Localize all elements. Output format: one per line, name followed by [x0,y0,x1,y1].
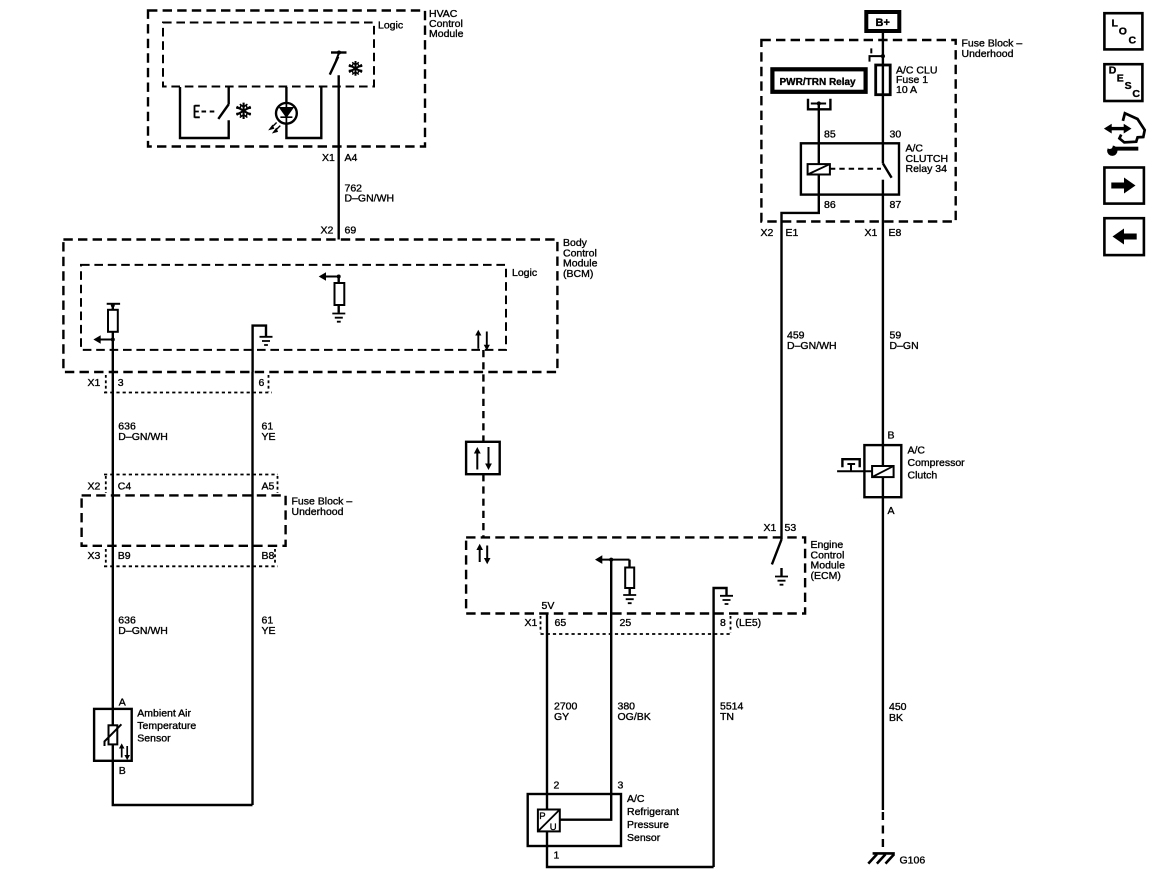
fuse block X2 row ticks [106,476,278,493]
wire 459 D-GN/WH [780,227,782,522]
wire: sensor pin1 return to 5514 TN [547,831,714,867]
svg-text:Logic: Logic [378,20,403,32]
snowflake icon 1 [236,103,251,119]
wire 380 OG/BK [560,614,611,820]
svg-text:5V: 5V [542,600,555,612]
wire: HVAC X1-A4 output down to BCM X2-69 [338,75,340,239]
fuse block X3 row ticks [106,549,275,565]
HVAC Control Module label [429,8,464,40]
svg-text:PWR/TRN Relay: PWR/TRN Relay [780,77,857,88]
sensor serial arrows [122,746,128,758]
svg-text:Clutch: Clutch [908,470,938,482]
LED diode symbol [280,103,292,124]
wire label 61 YE (lower) [262,615,276,638]
Fuse Block Underhood (left) label [292,496,353,519]
connector label X1 A4 [322,152,358,164]
fuse block X3 row bottom dotted edge [104,565,278,567]
LED indicator bracket wire [286,87,321,138]
serial data arrows (link box) [477,447,488,470]
Body Control Module label [563,237,598,280]
fuse label [896,65,937,96]
switch S2 contact dot [337,51,341,55]
svg-text:B+: B+ [876,17,890,29]
svg-text:X3: X3 [88,550,101,562]
thermistor body [109,725,118,744]
svg-text:A4: A4 [345,152,358,164]
svg-text:(LE5): (LE5) [736,617,762,629]
svg-text:2: 2 [554,780,560,792]
thermistor diagonal [105,724,122,746]
resistor R-5V pullup [628,560,630,568]
svg-text:A: A [888,505,895,517]
svg-text:E: E [1117,72,1124,84]
svg-text:GY: GY [554,711,569,723]
B+ battery feed box [866,12,899,31]
connector X1 row labels (ECM) [525,617,762,629]
connector X1 row bottom dotted edge [104,392,272,394]
svg-text:BK: BK [889,712,903,724]
resistor R-in69 junction arrow [325,276,339,278]
arrow out pin3 [100,339,113,341]
resistor R-in69 [338,277,340,284]
A/C Refrigerant Pressure Sensor box [528,794,621,846]
svg-text:3: 3 [118,377,124,389]
svg-text:Module: Module [429,28,464,40]
svg-text:10 A: 10 A [896,84,917,96]
wire label 59 D-GN [890,330,919,353]
svg-text:85: 85 [824,129,836,141]
current tap symbol at fuse feed [870,48,885,61]
HVAC Control Module outer box [148,11,425,147]
wire label 2700 GY [554,701,578,724]
svg-text:B: B [119,765,126,777]
connector X1 row bottom dotted edge (ECM) [541,633,733,635]
A/C Compressor Clutch label [908,445,966,482]
ground (internal, 69 pull) [332,314,345,322]
thermistor wire inside sensor [112,709,114,761]
svg-text:3: 3 [618,780,624,792]
wire: ECM pin8 ground leg [714,588,727,614]
wire: ECM pin25 signal [610,560,612,614]
connector label X2 69 [321,225,357,237]
svg-text:B9: B9 [118,550,131,562]
PWR/TRN Relay box [772,69,865,92]
svg-text:X1: X1 [764,522,777,534]
A/C CLUTCH Relay 34 label [906,143,949,176]
svg-text:Underhood: Underhood [962,48,1014,60]
connector X1 row ticks (ECM) [541,616,731,633]
switch S2 stub [336,53,339,61]
wire: relay pin86 to X2-E1 [782,175,819,228]
svg-text:1: 1 [554,850,560,862]
wire: BCM pin6 ground leg [253,326,266,372]
A/C Refrigerant Pressure Sensor label [627,793,679,844]
Engine Control Module box [466,537,805,613]
wire label 636 D-GN/WH (lower) [118,615,168,638]
svg-text:A/C: A/C [908,445,926,457]
clutch coil [882,445,884,497]
svg-text:30: 30 [890,129,902,141]
svg-text:YE: YE [262,625,276,637]
svg-text:X2: X2 [321,225,334,237]
snowflake icon 2 [349,61,363,76]
wire: PWR/TRN output to relay coil pin85 [818,104,820,165]
svg-text:YE: YE [262,431,276,443]
svg-text:86: 86 [824,199,836,211]
svg-text:(ECM): (ECM) [811,570,841,582]
svg-text:6: 6 [259,377,265,389]
wire 5514 TN [712,614,714,868]
svg-text:Underhood: Underhood [292,506,344,518]
svg-text:69: 69 [345,225,357,237]
BCM Logic box [81,265,506,350]
ground (ECM internal, pin8) [720,596,733,604]
serial data arrows (ECM) [480,546,488,563]
fuse block X2 row labels [88,481,275,493]
svg-text:A5: A5 [262,481,275,493]
svg-text:G106: G106 [900,855,926,867]
LOC letters [1112,18,1137,47]
wire: relay pin87 down [882,195,884,227]
fuse block X3 row labels [88,550,275,562]
svg-text:Ambient Air: Ambient Air [137,708,191,720]
svg-text:Sensor: Sensor [137,733,171,745]
relay switch blade [883,163,892,177]
next arrow glyph [1111,183,1125,189]
relay output terminal cup [808,99,830,110]
svg-text:D–GN/WH: D–GN/WH [118,431,168,443]
LED emission arrows [270,123,280,133]
wire label 459 D-GN/WH [787,330,837,353]
svg-text:E8: E8 [889,227,902,239]
wire label 61 YE (upper) [262,421,276,444]
wire 636 D-GN/WH upper segment [112,372,114,709]
svg-text:D: D [1109,65,1117,77]
svg-text:C: C [1129,35,1137,47]
svg-text:Relay 34: Relay 34 [906,163,948,175]
switch S2 blade [330,57,338,75]
svg-text:Pressure: Pressure [627,819,669,831]
switch S-ECM contact from pin53 [780,522,782,540]
svg-text:O: O [1119,26,1127,38]
ground (ECM internal, resistor) [623,595,636,603]
svg-text:D–GN/WH: D–GN/WH [118,625,168,637]
node: junction dot pin3 output [111,338,115,342]
node: junction dot 5V line [609,558,613,562]
resistor R-out3 [112,304,114,310]
svg-text:53: 53 [785,522,797,534]
svg-text:X1: X1 [322,152,335,164]
previous arrow glyph [1123,234,1137,240]
wire label 450 BK [889,701,907,724]
svg-text:L: L [1112,18,1119,30]
wire label 5514 TN [720,701,744,724]
svg-text:65: 65 [555,617,567,629]
svg-text:TN: TN [720,711,734,723]
serial data link box [466,442,500,474]
svg-text:Compressor: Compressor [908,457,966,469]
Ambient Air Temperature Sensor label [137,708,196,745]
DESC letters [1109,65,1141,100]
svg-text:X1: X1 [88,377,101,389]
pressure transducer P/U square [538,810,560,832]
resistor R-out3 supply tick [107,303,120,305]
Body Control Module outer box [63,240,557,373]
fuse A/C CLU Fuse 1 10A [876,65,891,95]
svg-text:25: 25 [620,617,632,629]
next arrow button box [1104,168,1144,204]
svg-text:D–GN/WH: D–GN/WH [345,193,395,205]
svg-text:A: A [119,697,126,709]
HVAC Logic box [163,23,374,87]
wire 59 D-GN [882,227,884,445]
relay switch lower contact [882,180,884,195]
svg-text:S: S [1125,80,1132,92]
svg-text:B8: B8 [262,550,275,562]
svg-text:OG/BK: OG/BK [618,711,651,723]
svg-text:C: C [1132,88,1140,100]
fuse block pass-through X2 row dotted edge [104,474,278,476]
previous arrow button box [1104,218,1144,255]
diagnostic icon arrows/wrench [1104,113,1145,156]
svg-text:X2: X2 [761,227,774,239]
DESC button box [1104,64,1142,101]
svg-text:Sensor: Sensor [627,832,661,844]
ground (ECM internal, pin53 switch) [780,568,782,576]
Fuse Block Underhood (left) box [82,495,286,545]
svg-text:Temperature: Temperature [137,720,196,732]
switch S1 mechanical dashed link [202,111,218,113]
Fuse Block Underhood (right) box [761,40,955,222]
switch S2 (evaporator) contact bar [331,51,347,53]
svg-text:87: 87 [890,199,902,211]
switch S1 A/C request contact top [227,87,229,104]
svg-text:C4: C4 [118,481,132,493]
wire 61 YE upper segment [251,372,253,805]
wire: serial data dashed BCM to box [482,350,484,442]
wire label 762 D-GN/WH [345,183,395,205]
relay coil K34 [808,164,830,174]
wire: B+ to fuse [882,31,884,65]
wire label 636 D-GN/WH (upper) [118,421,168,444]
svg-text:X1: X1 [865,227,878,239]
connector X1 row ticks [106,375,269,392]
clutch mechanical linkage [837,470,872,472]
switch S-ECM blade [772,540,782,565]
svg-text:P: P [539,811,545,822]
LED indicator circle [276,103,297,124]
5V reference line with arrow [601,559,630,561]
node: junction dot at 69 input [337,275,341,279]
svg-text:Logic: Logic [512,267,537,279]
svg-text:8: 8 [720,617,726,629]
svg-text:B: B [888,430,895,442]
A/C CLUTCH Relay 34 box [801,143,899,194]
connector label X1 53 [764,522,797,534]
wire: fuse to relay pin30 [882,95,884,164]
connector labels X1 E8 [865,227,902,239]
svg-text:A/C: A/C [627,793,645,805]
wire 450 BK [882,497,884,810]
wire: serial data dashed box to ECM [482,474,484,537]
serial data arrows (BCM logic) [478,332,487,349]
Ambient Air Temperature Sensor box [94,709,132,761]
svg-text:X2: X2 [88,481,101,493]
wire label 380 OG/BK [618,701,651,724]
ground G106 chassis symbol [868,853,895,863]
Engine Control Module label [811,539,846,582]
svg-text:(BCM): (BCM) [563,268,593,280]
svg-text:U: U [550,822,557,833]
connector X1 row labels [88,377,265,389]
svg-text:Refrigerant: Refrigerant [627,806,679,818]
svg-text:D–GN/WH: D–GN/WH [787,340,837,352]
svg-text:X1: X1 [525,617,538,629]
wire 450 BK dashed tail [882,812,884,852]
ground (internal, pin6) [260,337,273,345]
A/C Compressor Clutch box [864,445,901,497]
relay armature dashed link [830,168,881,170]
wire: A/C switch left bracket [180,87,229,138]
connector labels X2 E1 [761,227,799,239]
wire: sensor B return loop to 61 YE [113,761,253,805]
LOC button box [1104,13,1142,49]
switch S1 blade [218,104,229,119]
switch S1 actuator E symbol [195,105,200,118]
svg-text:D–GN: D–GN [890,340,919,352]
svg-text:E1: E1 [786,227,799,239]
wire 2700 GY [546,614,548,810]
Fuse Block Underhood (right) label [962,38,1023,61]
